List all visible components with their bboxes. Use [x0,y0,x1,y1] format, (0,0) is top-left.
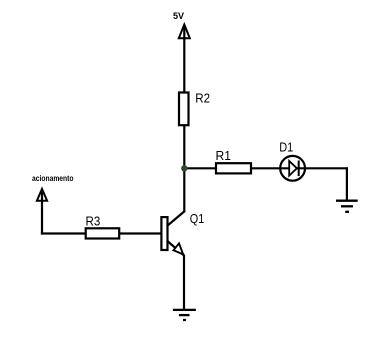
resistor R3 [86,228,120,238]
transistor Q1 emitter line [167,241,184,256]
wire through D1 [281,167,304,169]
wire D1 to corner [305,167,347,169]
wire input to R3 [41,232,86,234]
svg-text:R1: R1 [216,148,232,163]
transistor Q1 emitter arrow [174,243,184,254]
svg-text:R3: R3 [86,214,101,229]
node junction [181,165,187,171]
resistor R1 [216,163,251,173]
power arrow 5V [179,25,190,39]
transistor Q1 base bar [161,217,167,250]
wire 5V arrow to R2 [183,27,185,93]
LED D1 circle [280,156,305,181]
wire node to R1 [184,167,216,169]
transistor Q1 collector line [167,211,185,226]
wire R3 to base [119,232,161,234]
svg-text:Q1: Q1 [190,211,205,226]
input arrow acionamento [41,192,43,235]
wire corner down to ground right [346,167,348,201]
ground bottom [173,310,196,320]
wire emitter to ground [183,255,185,311]
ground right [336,201,358,212]
svg-text:acionamento: acionamento [32,174,74,183]
svg-text:5V: 5V [173,11,184,21]
diode triangle D1 [289,161,297,176]
svg-text:D1: D1 [279,140,293,155]
diode cathode bar D1 [298,161,300,177]
wire R2 to collector [183,125,185,212]
wire R1 to D1 [251,167,281,169]
svg-text:R2: R2 [195,91,210,106]
resistor R2 [179,93,189,126]
